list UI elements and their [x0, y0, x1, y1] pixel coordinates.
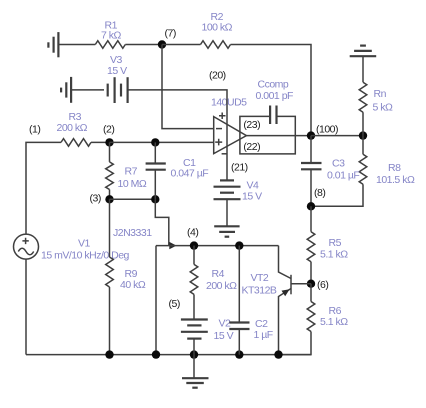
wire node down to R8: [362, 136, 364, 155]
node 6: [307, 280, 315, 288]
battery V2 15 V: [181, 320, 208, 339]
svg-text:(6): (6): [317, 279, 328, 291]
svg-text:1 µF: 1 µF: [254, 329, 273, 341]
node 4: [190, 241, 198, 249]
svg-text:(22): (22): [243, 141, 260, 153]
resistor R5 5.1 kOhm: [307, 232, 315, 262]
svg-text:15 mV/10 kHz/0 Deg: 15 mV/10 kHz/0 Deg: [41, 249, 130, 261]
wire node 1 from V1 to R3: [26, 142, 61, 234]
svg-text:(21): (21): [231, 162, 248, 174]
svg-text:100 kΩ: 100 kΩ: [202, 21, 233, 33]
svg-text:R5: R5: [329, 237, 342, 249]
svg-text:(7): (7): [165, 27, 176, 39]
junction VT2 emitter bottom: [274, 350, 282, 358]
wire node 6 to R6: [310, 284, 312, 302]
node junction at Rn bottom: [359, 131, 367, 139]
op-amp U1 140UD5: [214, 117, 247, 154]
JFET source wire to bottom rail: [155, 246, 157, 355]
svg-text:5.1 kΩ: 5.1 kΩ: [320, 316, 348, 328]
JFET gate arrow: [169, 242, 176, 249]
capacitor C2 1 uF: [238, 246, 240, 323]
wire op-amp output to node 100: [246, 135, 311, 137]
resistor Rn 5 kOhm: [359, 82, 367, 112]
wire V4 to ground: [226, 199, 228, 226]
node 8: [307, 202, 315, 210]
wire R2 feedback down to node 100: [231, 45, 312, 136]
junction JFET source bottom: [152, 350, 160, 358]
wire node 7 to R2: [162, 44, 201, 46]
svg-text:R4: R4: [212, 268, 225, 280]
svg-text:(100): (100): [316, 124, 338, 136]
wire ground to Rn: [362, 56, 364, 82]
transistor VT2 KT312B collector wire: [279, 246, 292, 279]
svg-text:101.5 kΩ: 101.5 kΩ: [376, 174, 415, 186]
svg-text:15 V: 15 V: [214, 330, 234, 342]
svg-text:Rn: Rn: [374, 88, 387, 100]
ground symbol above Rn: [350, 46, 377, 57]
wire R1 to node 7: [125, 44, 162, 46]
node 3: [105, 195, 113, 203]
source V1 15 mV: [25, 259, 27, 355]
wire ground to R1: [58, 44, 95, 46]
svg-text:5.1 kΩ: 5.1 kΩ: [320, 248, 348, 260]
svg-text:200 kΩ: 200 kΩ: [206, 280, 237, 292]
svg-text:140UD5: 140UD5: [211, 97, 247, 109]
battery V3 15 V: [108, 77, 128, 103]
svg-text:0.01 µF: 0.01 µF: [327, 169, 359, 181]
resistor R2: [201, 41, 231, 49]
battery V4 15 V: [214, 180, 241, 199]
resistor R9 40 kOhm: [109, 199, 111, 257]
svg-text:(3): (3): [90, 192, 101, 204]
op-amp - power mark: [222, 153, 228, 155]
svg-text:200 kΩ: 200 kΩ: [57, 122, 88, 134]
op-amp + power mark: [219, 113, 226, 120]
svg-text:R7: R7: [125, 166, 138, 178]
svg-text:5 kΩ: 5 kΩ: [373, 102, 394, 114]
svg-text:(1): (1): [29, 124, 40, 136]
junction C1 top: [151, 138, 159, 146]
ground symbol bottom rail: [193, 355, 195, 379]
svg-text:R9: R9: [125, 268, 138, 280]
wire ground to V3: [71, 89, 104, 91]
svg-text:C3: C3: [332, 158, 345, 170]
resistor R1: [95, 41, 125, 49]
svg-text:15 V: 15 V: [107, 65, 127, 77]
resistor R4 200 kOhm: [193, 246, 195, 265]
svg-text:15 V: 15 V: [242, 191, 262, 203]
svg-text:(8): (8): [314, 187, 325, 199]
svg-text:10 MΩ: 10 MΩ: [118, 178, 147, 190]
op-amp + non-inverting input mark: [215, 139, 222, 146]
wire node 100 to Rn R8 column: [311, 135, 363, 137]
capacitor C3 0.01 uF: [310, 136, 312, 163]
svg-text:V2: V2: [219, 318, 232, 330]
junction R9 bottom: [105, 350, 113, 358]
resistor R7 10 MOhm: [109, 142, 111, 162]
svg-text:VT2: VT2: [251, 272, 269, 284]
JFET J2N3331 gate wire from node 3 net: [155, 199, 169, 245]
VT2 base wire to node 6: [291, 283, 311, 285]
wire node 4 row: [156, 245, 279, 247]
node 7: [158, 40, 166, 48]
wire node 8 down to R5: [310, 206, 312, 231]
VT2 emitter wire with arrow: [279, 289, 292, 355]
svg-text:(20): (20): [209, 69, 226, 81]
node 100: [307, 131, 315, 139]
wire Rn to node: [362, 112, 364, 135]
svg-text:R6: R6: [329, 305, 342, 317]
wire R6 to bottom rail: [279, 332, 312, 355]
junction C1 bottom: [151, 195, 159, 203]
junction C2 top: [235, 241, 243, 249]
svg-text:KT312B: KT312B: [242, 285, 277, 297]
resistor R3 200 kOhm: [61, 139, 91, 147]
wire V3 to op-amp pin 20 and through op-amp to V4: [128, 90, 227, 180]
resistor R8 101.5 kOhm: [359, 154, 367, 184]
svg-text:7 kΩ: 7 kΩ: [101, 30, 122, 42]
svg-text:(4): (4): [187, 226, 198, 238]
wire node 2 to C1 junction: [110, 141, 156, 143]
wire R3 to node 2: [91, 141, 110, 143]
VT2 base bar: [290, 275, 292, 295]
svg-text:R8: R8: [388, 162, 401, 174]
svg-text:V1: V1: [78, 238, 91, 250]
ground symbol left of R1: [48, 32, 58, 57]
svg-text:0.047 µF: 0.047 µF: [171, 168, 209, 180]
svg-text:40 kΩ: 40 kΩ: [120, 279, 146, 291]
svg-text:(5): (5): [169, 298, 180, 310]
node 2: [105, 138, 113, 146]
wire node 3 to C1 bottom: [110, 198, 156, 200]
op-amp - inverting input mark: [216, 128, 222, 130]
wire op-amp non-inverting input: [155, 141, 213, 143]
svg-text:(2): (2): [103, 124, 114, 136]
junction V2 bottom: [190, 350, 198, 358]
junction C2 bottom: [235, 350, 243, 358]
svg-text:(23): (23): [243, 119, 260, 131]
ground symbol left of V3: [61, 77, 71, 103]
wire R8 to node 8: [311, 184, 363, 206]
resistor R6 5.1 kOhm: [307, 302, 315, 332]
capacitor Ccomp 0.001 pF: [270, 106, 276, 125]
capacitor C1 0.047 uF: [154, 142, 156, 163]
bottom rail wire: [26, 354, 311, 356]
compensation box pins 23 22: [240, 116, 295, 153]
wire R5 to node 6: [310, 262, 312, 284]
svg-text:Ccomp: Ccomp: [258, 79, 289, 91]
ground symbol below V4: [214, 226, 239, 236]
svg-text:J2N3331: J2N3331: [113, 227, 152, 239]
svg-text:0.001 pF: 0.001 pF: [256, 90, 294, 102]
wire node 7 down to op-amp inverting input: [162, 45, 214, 129]
